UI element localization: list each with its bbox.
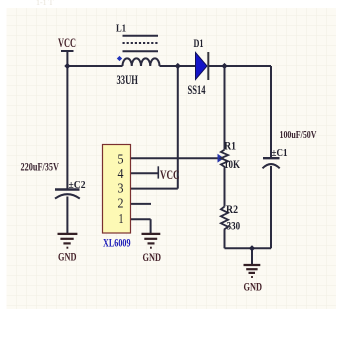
svg-text:1-1 T: 1-1 T [36, 0, 54, 7]
svg-text:R2: R2 [226, 204, 238, 216]
svg-text:±C1: ±C1 [272, 147, 288, 159]
svg-text:GND: GND [244, 279, 263, 293]
svg-text:GND: GND [58, 249, 77, 263]
svg-text:5: 5 [118, 153, 124, 168]
svg-text:SS14: SS14 [188, 83, 207, 97]
svg-text:XL6009: XL6009 [103, 238, 131, 250]
svg-text:10K: 10K [224, 157, 240, 171]
svg-text:2: 2 [118, 197, 124, 212]
svg-text:220uF/35V: 220uF/35V [21, 160, 60, 174]
svg-text:±C2: ±C2 [69, 179, 86, 191]
svg-text:R1: R1 [224, 141, 236, 153]
svg-text:GND: GND [143, 250, 162, 264]
svg-text:330: 330 [227, 218, 241, 232]
svg-text:1: 1 [119, 212, 124, 227]
svg-text:VCC: VCC [58, 36, 76, 50]
svg-text:4: 4 [118, 167, 124, 182]
svg-text:33UH: 33UH [117, 73, 139, 87]
svg-text:L1: L1 [116, 22, 126, 34]
svg-text:100uF/50V: 100uF/50V [280, 130, 318, 141]
svg-text:VCC: VCC [160, 168, 180, 182]
svg-text:D1: D1 [194, 38, 204, 50]
svg-text:3: 3 [118, 182, 124, 197]
